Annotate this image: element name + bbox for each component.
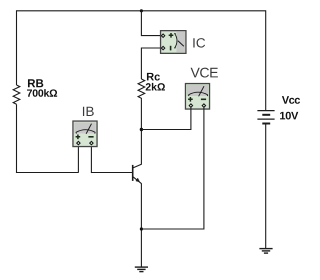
- label IC: [193, 38, 205, 48]
- wire trunk to IC plus: [141, 11, 160, 36]
- label VCE: [191, 68, 218, 78]
- transistor Q1 collector diagonal: [133, 164, 142, 168]
- wire base: [91, 172, 132, 174]
- battery Vcc plate long bottom: [257, 118, 274, 120]
- ground Vcc: [259, 249, 272, 254]
- wire IB minus lead: [90, 146, 92, 174]
- wire IC minus to trunk: [141, 48, 160, 79]
- wire VCE minus lead: [142, 108, 204, 230]
- wire left rail upper: [16, 10, 18, 85]
- wire Vcc top: [265, 10, 267, 110]
- wire left rail lower: [16, 104, 18, 172]
- transistor Q1 emitter arrow: [136, 178, 140, 182]
- label 2kΩ: [146, 83, 165, 91]
- label IB: [83, 107, 94, 116]
- wire VCE plus lead: [142, 108, 191, 130]
- node top junction: [140, 9, 143, 12]
- battery Vcc plate long top: [257, 110, 274, 112]
- ammeter IC: [161, 31, 186, 54]
- wire collector trunk: [140, 99, 142, 164]
- node emitter-VCE junction: [140, 227, 143, 230]
- wire bottom-left horizontal: [16, 172, 79, 174]
- label Vcc: [282, 96, 300, 104]
- wire IB plus lead: [77, 146, 79, 173]
- battery Vcc plate short bottom: [262, 123, 270, 125]
- ammeter IB: [73, 121, 97, 147]
- node collector-VCE junction: [140, 128, 143, 131]
- resistor Rc: [138, 79, 145, 99]
- transistor Q1 emitter diagonal: [133, 177, 142, 184]
- voltmeter VCE: [185, 84, 209, 110]
- battery Vcc plate short: [262, 114, 270, 116]
- transistor Q1 base bar: [132, 165, 134, 181]
- wire emitter down: [140, 183, 142, 267]
- resistor RB: [13, 85, 20, 104]
- label 10V: [280, 112, 298, 120]
- label Rc: [147, 73, 160, 81]
- wire Vcc bottom: [265, 124, 267, 249]
- label RB: [28, 79, 43, 87]
- label 700kΩ: [27, 89, 57, 97]
- wire top rail: [17, 10, 266, 12]
- ground emitter: [135, 267, 148, 272]
